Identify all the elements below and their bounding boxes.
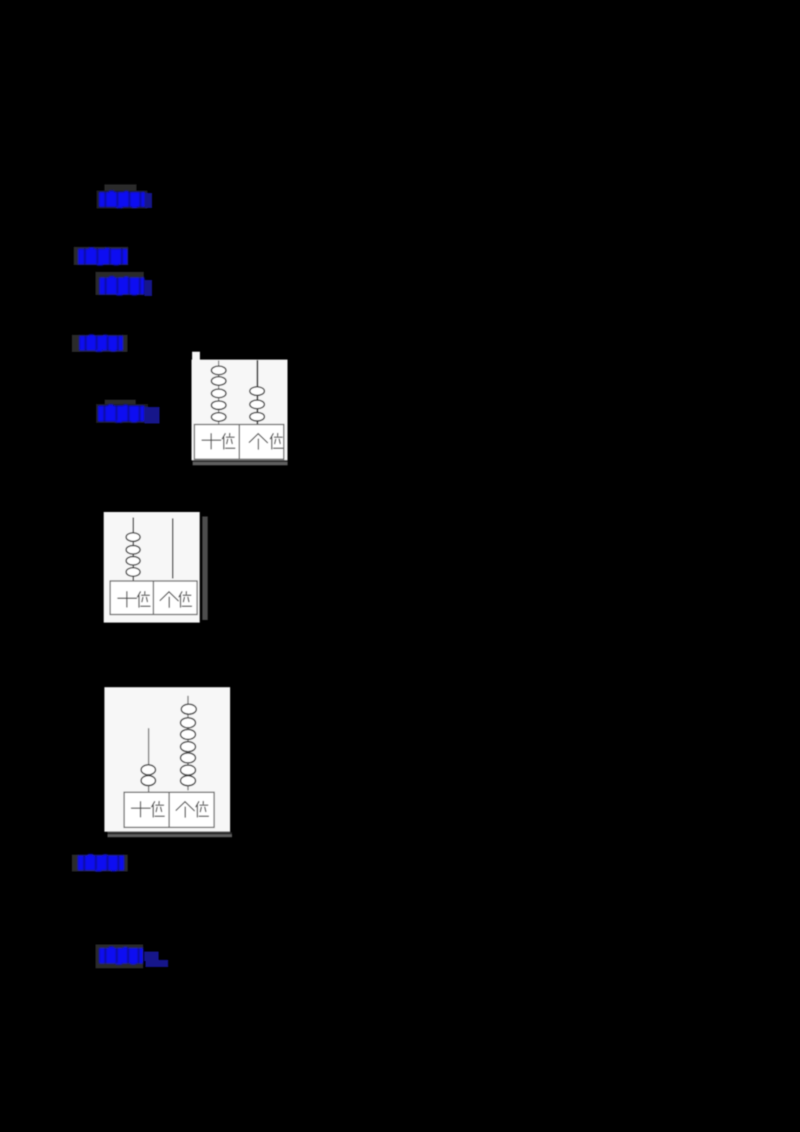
box 1 drop shadow bar: [193, 462, 288, 465]
analysis label 4 blue text blob: [79, 335, 123, 352]
analysis label 6 blue text blob: [78, 854, 124, 871]
box 2 label 十位: [118, 592, 150, 608]
box 1 top-left white tab: [192, 352, 200, 361]
box 2 label 个位: [160, 592, 191, 608]
box 3 label 个位: [176, 802, 208, 818]
box 2 tens beads (4): [126, 533, 140, 577]
box 1 bottom dark edge: [193, 460, 288, 462]
box 3 ones beads (7): [181, 704, 197, 786]
abacus diagram box 1 (53) white panel: [192, 360, 288, 461]
box 2 tens rod: [132, 518, 134, 582]
answer label 7 blue text blob: [99, 947, 143, 965]
answer label 5 highlight bg: [96, 404, 148, 423]
box 2 place-value table: [110, 581, 197, 615]
faint text trace above answer label 1: [104, 184, 136, 192]
box 1 tens beads (5): [211, 366, 226, 421]
analysis label 6 highlight bg: [72, 855, 128, 872]
box 2 ones rod: [172, 518, 174, 578]
answer label 3 blue text blob: [99, 276, 144, 295]
box 3 bottom dark edge: [108, 832, 233, 834]
answer label 1 highlight bg: [97, 191, 148, 209]
box 1 ones beads (3): [250, 387, 265, 421]
box 3 tens beads (2): [141, 765, 155, 786]
answer label 7 highlight bg: [96, 945, 144, 969]
abacus diagram box 2 (40) white panel: [104, 512, 200, 623]
analysis label 2 blue text blob: [78, 248, 127, 266]
abacus diagram box 3 (27) white panel: [104, 687, 230, 832]
box 3 bottom drop shadow bar: [108, 834, 233, 837]
answer label 1 blue text blob: [99, 191, 145, 208]
box 3 place-value table: [124, 792, 214, 827]
answer label 5 blue text blob: [98, 404, 145, 422]
answer label 7 navy selection upper: [144, 952, 158, 962]
box 3 tens rod: [148, 728, 150, 792]
box 1 label 个位: [249, 434, 282, 450]
answer label 3 highlight bg: [96, 272, 144, 295]
faint text trace above answer label 5: [105, 400, 136, 406]
analysis label 2 highlight bg: [74, 247, 128, 265]
box 3 label 十位: [132, 802, 165, 818]
analysis label 4 highlight bg: [72, 335, 128, 352]
box 1 ones rod: [256, 360, 258, 425]
box 1 tens rod: [218, 361, 220, 425]
answer label 3 navy selection: [144, 280, 152, 296]
answer label 7 navy selection lower: [146, 960, 169, 967]
box 1 place-value table: [194, 425, 283, 460]
answer label 1 navy selection: [145, 193, 152, 208]
box 2 right drop shadow column: [202, 517, 207, 621]
box 1 label 十位: [202, 434, 235, 450]
answer label 5 navy selection: [145, 407, 160, 424]
box 3 ones rod: [187, 696, 189, 791]
